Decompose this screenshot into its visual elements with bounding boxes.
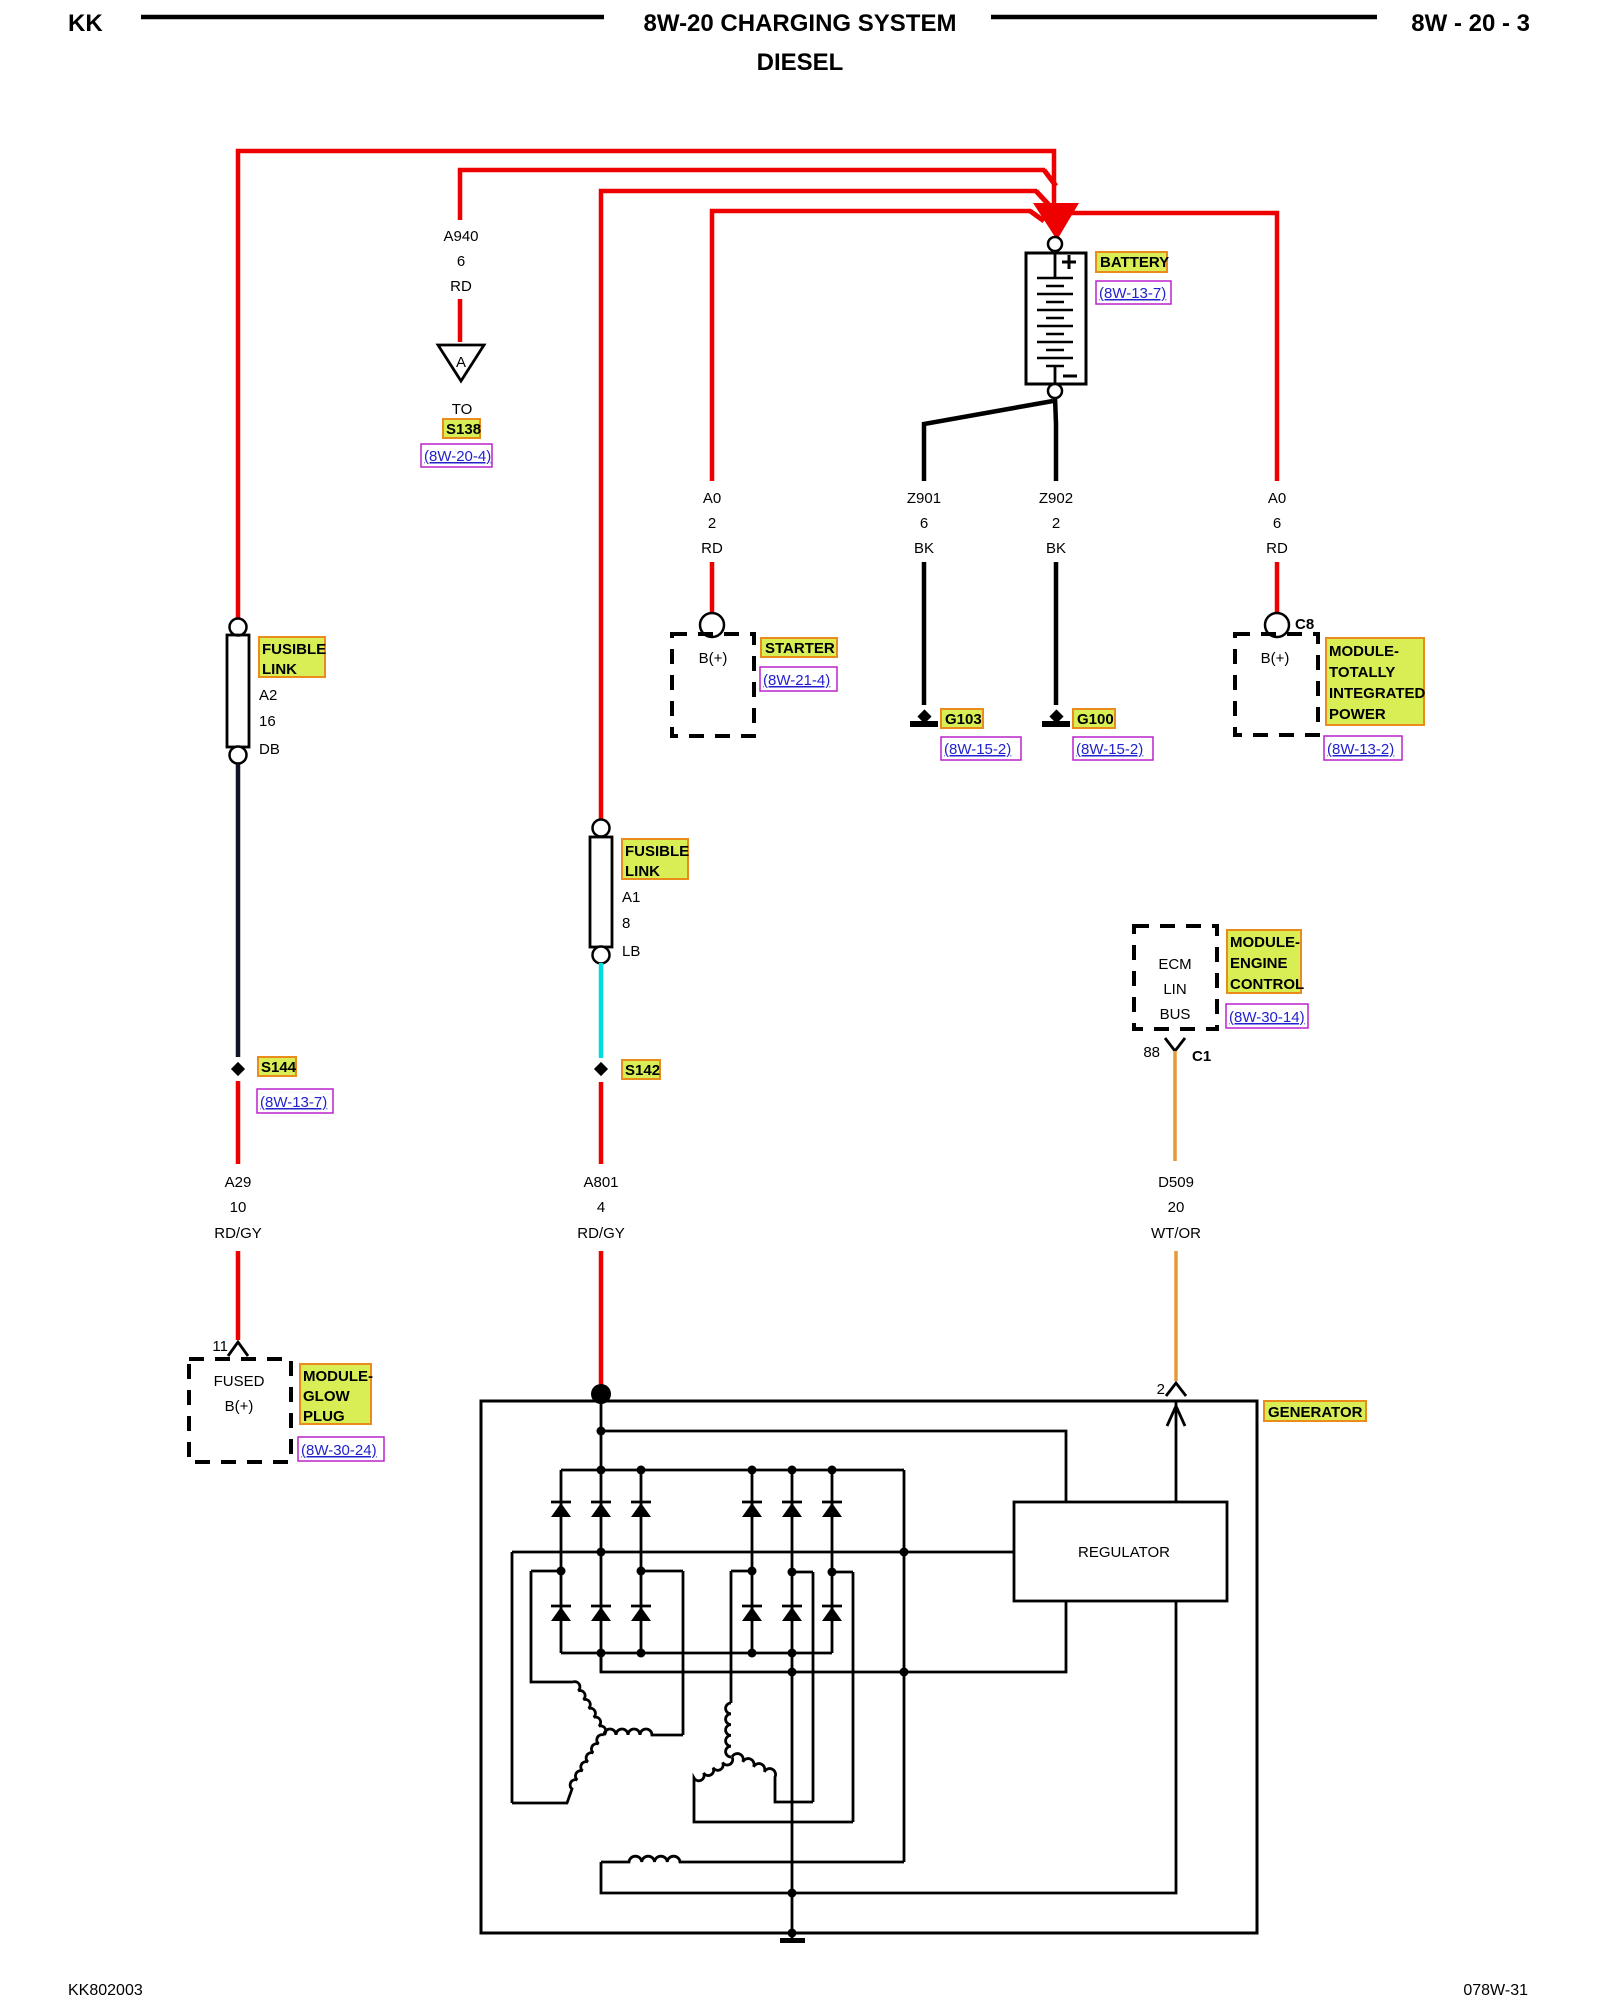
stator winding 2 arm B (732, 1754, 813, 1802)
wire D509 orange upper (1173, 1051, 1177, 1161)
svg-text:6: 6 (457, 253, 465, 270)
svg-text:078W-31: 078W-31 (1463, 1982, 1528, 1999)
wire feed 4 red (battery to starter) (712, 211, 1031, 481)
diode D12 (822, 1605, 842, 1608)
wire phase drop 1 (531, 1571, 573, 1682)
svg-text:6: 6 (1273, 515, 1281, 532)
arrowhead red at battery positive (1033, 203, 1079, 240)
svg-text:10: 10 (230, 1199, 247, 1216)
svg-text:POWER: POWER (1329, 706, 1386, 723)
wire Z902 black battery negative down (1055, 397, 1056, 481)
svg-text:RD: RD (450, 278, 472, 295)
svg-text:ECM: ECM (1158, 956, 1191, 973)
svg-text:A940: A940 (443, 228, 478, 245)
off-page connector A triangle (438, 345, 484, 381)
svg-text:GLOW: GLOW (303, 1388, 350, 1405)
svg-text:88: 88 (1143, 1044, 1160, 1061)
svg-text:(8W-15-2): (8W-15-2) (944, 741, 1011, 758)
svg-text:A0: A0 (1268, 490, 1286, 507)
wire phase stub 5 (832, 1571, 853, 1574)
S138 page link 8W-20-4 (421, 444, 492, 467)
svg-text:4: 4 (597, 1199, 605, 1216)
stator winding 2 arm C (694, 1757, 853, 1822)
svg-text:S142: S142 (625, 1062, 660, 1079)
svg-text:(8W-13-7): (8W-13-7) (260, 1094, 327, 1111)
svg-text:G103: G103 (945, 711, 982, 728)
wire regulator left bus (512, 1551, 1014, 1554)
wire regulator bus drop left (511, 1552, 514, 1803)
svg-text:FUSED: FUSED (214, 1373, 265, 1390)
diode D9 (631, 1605, 651, 1608)
wire A0 red lower starter (710, 562, 715, 613)
wire A801 red upper (599, 1082, 604, 1164)
wire B+ sense to regulator top (601, 1431, 1066, 1502)
diode column 6 (831, 1470, 834, 1653)
fusible link A1 bottom terminal (593, 947, 610, 964)
svg-text:KK802003: KK802003 (68, 1982, 143, 1999)
fusible link A1 label (622, 839, 688, 879)
glow plug page link 8W-30-24 (298, 1437, 384, 1461)
svg-text:RD: RD (701, 540, 723, 557)
field winding L1 (601, 1856, 904, 1862)
wire A801 red lower to generator (599, 1251, 604, 1392)
TIPM connector box (1235, 634, 1318, 735)
diode D2 (591, 1501, 611, 1504)
svg-text:D509: D509 (1158, 1174, 1194, 1191)
wire feed 1 red top (battery to fusible link A2) (238, 151, 1054, 620)
splice S144 (231, 1062, 245, 1076)
svg-text:DIESEL: DIESEL (757, 49, 844, 76)
ground G103 page link 8W-15-2 (941, 737, 1021, 760)
svg-text:LINK: LINK (625, 863, 660, 880)
svg-text:11: 11 (212, 1338, 228, 1355)
svg-text:INTEGRATED: INTEGRATED (1329, 685, 1426, 702)
svg-text:A0: A0 (703, 490, 721, 507)
svg-text:(8W-30-14): (8W-30-14) (1229, 1009, 1305, 1026)
ground G100 page link 8W-15-2 (1073, 737, 1153, 760)
wire feed 2 red (battery to A940 splice branch) (460, 170, 1045, 220)
svg-text:LIN: LIN (1163, 981, 1186, 998)
wire phase stub 4 (792, 1571, 813, 1574)
svg-text:Z902: Z902 (1039, 490, 1073, 507)
svg-text:(8W-21-4): (8W-21-4) (763, 672, 830, 689)
svg-text:MODULE-: MODULE- (303, 1368, 373, 1385)
TIPM page link 8W-13-2 (1324, 736, 1402, 760)
wire A940 red lower (458, 299, 463, 342)
stator winding 2 arm A (726, 1703, 731, 1757)
wire generator internal pin2 to regulator with up arrow (1175, 1401, 1178, 1502)
ECM page link 8W-30-14 (1226, 1004, 1308, 1028)
junction node B+ at generator top (591, 1384, 611, 1404)
wire diode cathode bus (561, 1469, 904, 1472)
fusible link A2 label (259, 637, 325, 677)
diode D8 (591, 1605, 611, 1608)
svg-text:2: 2 (708, 515, 716, 532)
svg-text:REGULATOR: REGULATOR (1078, 1544, 1170, 1561)
svg-text:LB: LB (622, 943, 640, 960)
svg-text:C1: C1 (1192, 1048, 1211, 1065)
wire phase drop 5 (852, 1572, 855, 1822)
svg-text:WT/OR: WT/OR (1151, 1225, 1201, 1242)
splice S142 (594, 1062, 608, 1076)
generator box (481, 1401, 1257, 1933)
generator case ground (791, 1933, 794, 1940)
svg-text:16: 16 (259, 713, 276, 730)
svg-text:2: 2 (1052, 515, 1060, 532)
svg-text:20: 20 (1168, 1199, 1185, 1216)
svg-text:(8W-20-4): (8W-20-4) (424, 448, 491, 465)
wire phase stub 3 (731, 1570, 752, 1573)
svg-text:FUSIBLE: FUSIBLE (262, 641, 326, 658)
wire A2 dark blue (236, 764, 241, 1057)
battery B1 (1026, 253, 1086, 384)
wire phase stub 2 (641, 1570, 683, 1573)
battery positive terminal node (1048, 237, 1062, 251)
fusible link A1 body (590, 837, 612, 947)
svg-text:C8: C8 (1295, 616, 1314, 633)
svg-text:(8W-13-2): (8W-13-2) (1327, 741, 1394, 758)
diode column 2 (600, 1401, 603, 1672)
fusible link A2 body (227, 635, 249, 747)
diode column 5 / ground column (791, 1470, 794, 1933)
wire A29 red lower (236, 1251, 241, 1340)
svg-text:A: A (456, 354, 466, 371)
svg-text:BUS: BUS (1160, 1006, 1191, 1023)
S144 page link 8W-13-7 (257, 1089, 333, 1113)
fusible link A1 top terminal (593, 820, 610, 837)
stator winding 1 arm B (604, 1729, 683, 1735)
svg-text:6: 6 (920, 515, 928, 532)
wire phase drop 3 (730, 1571, 733, 1703)
svg-text:CONTROL: CONTROL (1230, 976, 1304, 993)
diode D6 (822, 1501, 842, 1504)
svg-text:A801: A801 (583, 1174, 618, 1191)
svg-text:Z901: Z901 (907, 490, 941, 507)
ECM label module engine control (1227, 930, 1301, 993)
diode D10 (742, 1605, 762, 1608)
fusible link A2 top terminal (230, 619, 247, 636)
svg-text:ENGINE: ENGINE (1230, 955, 1288, 972)
TIPM label (1326, 638, 1424, 725)
starter connector box (672, 634, 754, 736)
generator label (1264, 1401, 1366, 1421)
stator winding 1 arm A (573, 1682, 606, 1735)
svg-text:TO: TO (452, 401, 473, 418)
wire Z901 black branch to left (924, 401, 1053, 481)
battery negative terminal node (1048, 384, 1062, 398)
svg-text:B(+): B(+) (699, 650, 728, 667)
header rule right (991, 15, 1377, 20)
svg-text:MODULE-: MODULE- (1230, 934, 1300, 951)
TIPM terminal node C8 (1265, 613, 1289, 637)
wire feed 5 red (battery to TIPM C8) (1058, 213, 1277, 481)
svg-text:(8W-30-24): (8W-30-24) (301, 1442, 377, 1459)
svg-text:G100: G100 (1077, 711, 1114, 728)
diode D4 (742, 1501, 762, 1504)
svg-text:TOTALLY: TOTALLY (1329, 664, 1395, 681)
wire regulator field drop (601, 1601, 1176, 1893)
diode column 1 (560, 1470, 563, 1653)
diode D1 (551, 1501, 571, 1504)
svg-text:FUSIBLE: FUSIBLE (625, 843, 689, 860)
header rule left (141, 15, 604, 20)
fusible link A2 bottom terminal (230, 747, 247, 764)
wire A0 red lower TIPM (1275, 562, 1280, 613)
module glow plug label (300, 1364, 371, 1424)
starter terminal node (700, 613, 724, 637)
ECM connector box (1134, 926, 1217, 1029)
diode D11 (782, 1605, 802, 1608)
svg-text:RD/GY: RD/GY (577, 1225, 625, 1242)
diode D5 (782, 1501, 802, 1504)
regulator U1 (1014, 1502, 1227, 1601)
svg-text:PLUG: PLUG (303, 1408, 345, 1425)
svg-text:LINK: LINK (262, 661, 297, 678)
ground G100 (1049, 709, 1063, 723)
starter label (761, 638, 837, 657)
wire phase stub 1 (531, 1570, 561, 1573)
svg-text:8: 8 (622, 915, 630, 932)
wire A1 light blue (599, 963, 604, 1058)
svg-text:GENERATOR: GENERATOR (1268, 1404, 1363, 1421)
diode column 4 (751, 1470, 754, 1653)
wire phase drop 4 (812, 1572, 815, 1802)
svg-text:A1: A1 (622, 889, 640, 906)
battery label (1096, 252, 1167, 272)
svg-text:(8W-15-2): (8W-15-2) (1076, 741, 1143, 758)
svg-text:8W-20 CHARGING SYSTEM: 8W-20 CHARGING SYSTEM (644, 10, 957, 37)
svg-text:RD: RD (1266, 540, 1288, 557)
svg-text:BK: BK (914, 540, 934, 557)
wire phase drop 2 (682, 1571, 685, 1735)
svg-text:KK: KK (68, 10, 103, 37)
svg-text:8W - 20 - 3: 8W - 20 - 3 (1411, 10, 1530, 37)
svg-text:MODULE-: MODULE- (1329, 643, 1399, 660)
stator winding 1 arm C (512, 1735, 604, 1803)
junction dots (557, 1427, 909, 1938)
battery page link 8W-13-7 (1096, 281, 1171, 304)
wire diode anode bus (561, 1652, 832, 1655)
svg-text:BATTERY: BATTERY (1100, 254, 1169, 271)
svg-text:S138: S138 (446, 421, 481, 438)
svg-text:B(+): B(+) (225, 1398, 254, 1415)
module glow plug connector box (189, 1359, 291, 1462)
wire A29 red upper (236, 1081, 241, 1164)
svg-text:STARTER: STARTER (765, 640, 835, 657)
starter page link 8W-21-4 (760, 667, 837, 691)
svg-text:B(+): B(+) (1261, 650, 1290, 667)
wire top-bus drop right (903, 1470, 906, 1862)
diode D3 (631, 1501, 651, 1504)
wire Z902 lower black (1054, 562, 1059, 705)
diode D7 (551, 1605, 571, 1608)
wire Z901 lower black (922, 562, 927, 705)
wire feed 3 red (battery to fusible link A1) (601, 191, 1037, 821)
svg-text:RD/GY: RD/GY (214, 1225, 262, 1242)
svg-text:S144: S144 (261, 1059, 297, 1076)
svg-text:DB: DB (259, 741, 280, 758)
svg-text:BK: BK (1046, 540, 1066, 557)
svg-text:(8W-13-7): (8W-13-7) (1099, 285, 1166, 302)
diode column 3 (640, 1470, 643, 1653)
svg-text:A29: A29 (225, 1174, 252, 1191)
ground G103 (917, 709, 931, 723)
svg-text:2: 2 (1157, 1381, 1165, 1398)
wire D509 orange lower (1174, 1251, 1178, 1381)
svg-text:A2: A2 (259, 687, 277, 704)
wire lower bus to regulator bottom (601, 1601, 1066, 1672)
